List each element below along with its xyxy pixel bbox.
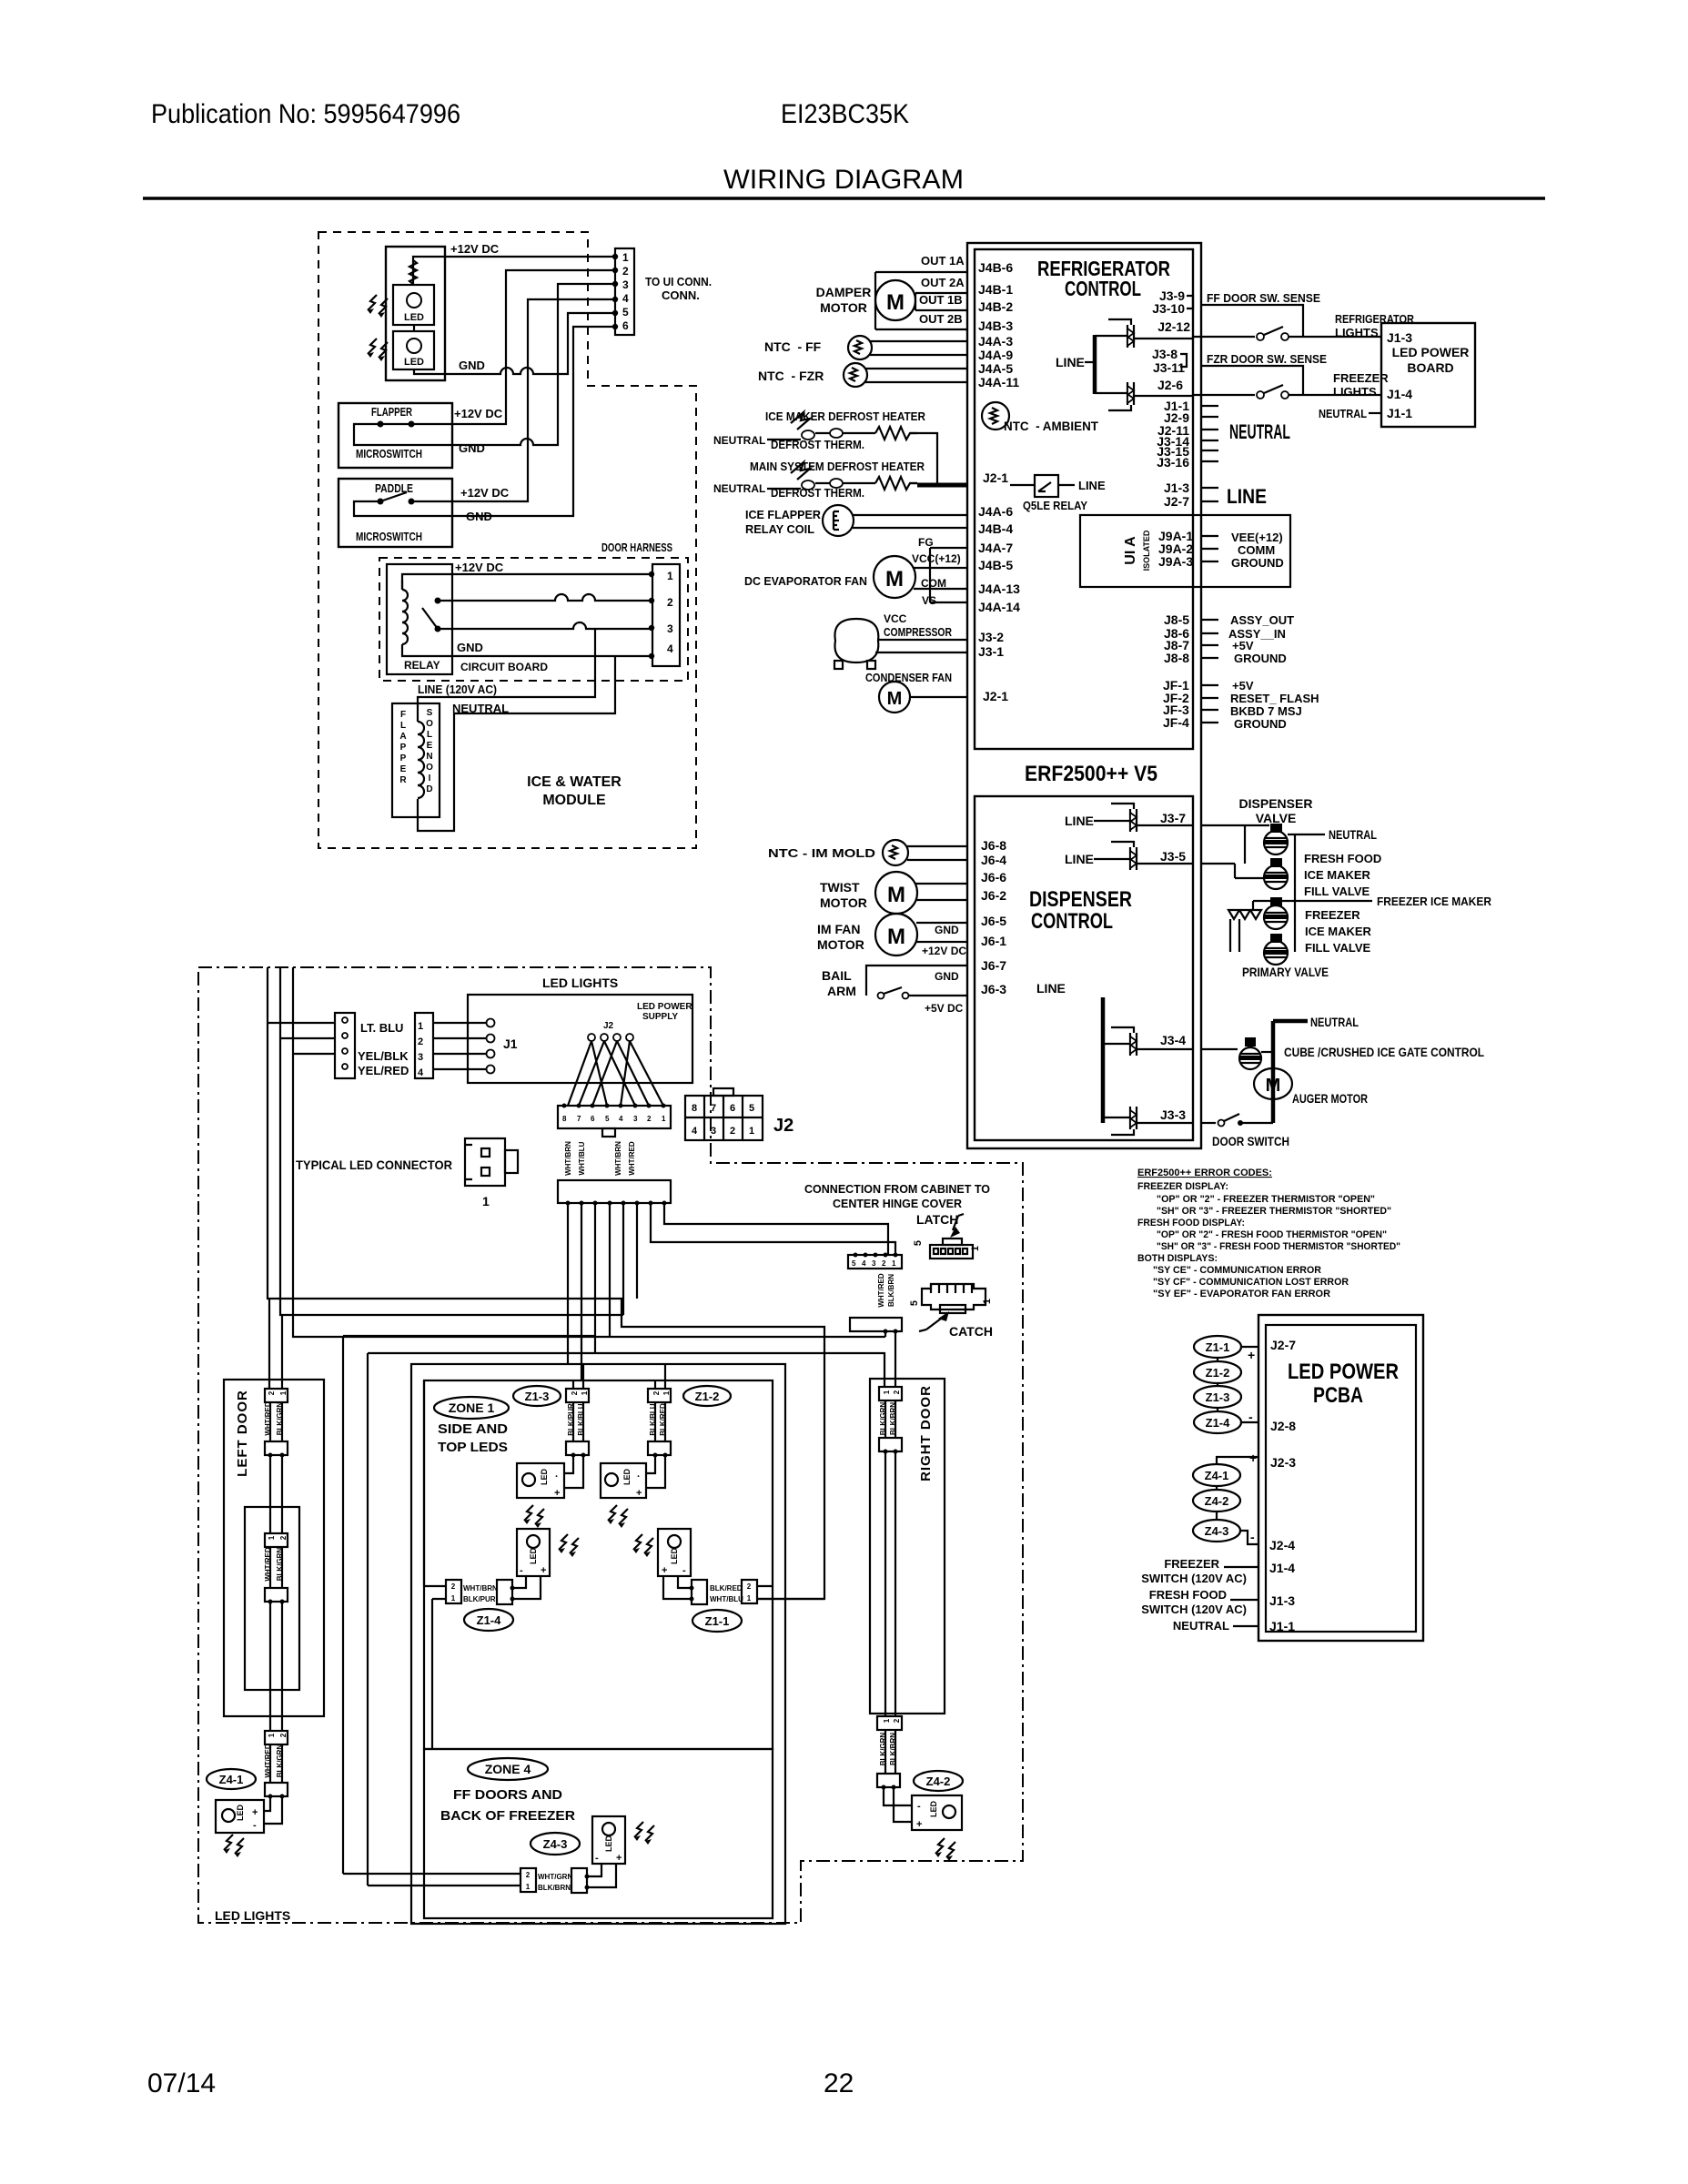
svg-text:GROUND: GROUND (1234, 717, 1287, 731)
J8 stubs (1201, 620, 1218, 658)
svg-text:5: 5 (852, 1259, 856, 1268)
svg-text:VEE(+12): VEE(+12) (1231, 531, 1283, 544)
svg-text:ERF2500++ ERROR CODES:: ERF2500++ ERROR CODES: (1137, 1168, 1272, 1178)
LED POWER PCBA outer box (1258, 1315, 1423, 1641)
NTC FZR thermistor (844, 363, 967, 387)
svg-text:J3-4: J3-4 (1160, 1033, 1186, 1047)
Z4-1 oval (1193, 1464, 1240, 1486)
svg-text:NTC - FZR: NTC - FZR (758, 369, 824, 383)
svg-text:LED: LED (236, 1804, 245, 1821)
svg-text:NEUTRAL: NEUTRAL (1310, 1015, 1359, 1029)
svg-text:FRESH FOOD: FRESH FOOD (1149, 1588, 1227, 1602)
svg-text:BOARD: BOARD (1407, 360, 1453, 375)
svg-text:DISPENSER: DISPENSER (1239, 796, 1313, 811)
svg-text:MOTOR: MOTOR (820, 895, 867, 910)
paddle gnd wire up to pin 6 (354, 327, 615, 516)
svg-text:WHT/GRN: WHT/GRN (538, 1873, 572, 1881)
dispenser control inner box (975, 796, 1193, 1140)
svg-text:J3-8: J3-8 (1152, 347, 1178, 361)
svg-text:LINE (120V AC): LINE (120V AC) (418, 682, 497, 696)
svg-text:FILL VALVE: FILL VALVE (1305, 941, 1371, 955)
svg-text:MICROSWITCH: MICROSWITCH (356, 530, 422, 543)
svg-text:1: 1 (268, 1733, 276, 1737)
svg-text:4: 4 (622, 292, 629, 305)
svg-text:1: 1 (482, 1194, 490, 1208)
Z1 chain wires (1218, 1347, 1258, 1422)
svg-text:GROUND: GROUND (1234, 652, 1287, 665)
svg-text:NEUTRAL: NEUTRAL (1329, 827, 1377, 842)
svg-text:ICE MAKER DEFROST HEATER: ICE MAKER DEFROST HEATER (765, 409, 926, 423)
svg-text:7: 7 (711, 1103, 716, 1114)
svg-text:NTC - IM MOLD: NTC - IM MOLD (768, 846, 875, 860)
svg-text:+: + (1249, 1451, 1257, 1465)
svg-text:+: + (554, 1488, 560, 1499)
Z1-4 oval (1194, 1411, 1241, 1433)
svg-text:1: 1 (279, 1390, 288, 1395)
svg-text:J1-4: J1-4 (1269, 1561, 1295, 1575)
relay +12 wire to pin 1 (402, 574, 652, 590)
LED power supply box (468, 995, 692, 1083)
svg-text:-: - (682, 1565, 686, 1576)
svg-text:GND: GND (457, 641, 483, 654)
svg-text:VCC(+12): VCC(+12) (912, 552, 961, 565)
LED lights dash-dot border (198, 967, 1023, 1923)
svg-text:Z4-3: Z4-3 (543, 1837, 568, 1851)
svg-text:J8-5: J8-5 (1164, 612, 1189, 627)
svg-text:CUBE /CRUSHED ICE GATE CONTROL: CUBE /CRUSHED ICE GATE CONTROL (1284, 1045, 1484, 1059)
svg-text:LINE: LINE (1036, 981, 1066, 996)
svg-text:2: 2 (652, 1390, 661, 1395)
svg-text:.: . (637, 1469, 640, 1480)
IM fan motor (875, 914, 968, 955)
water inlet triangles (1228, 910, 1261, 952)
svg-text:LINE: LINE (1227, 485, 1267, 508)
FZR door sense wire (1193, 366, 1303, 395)
right door wires (885, 1400, 895, 1716)
svg-text:SIDE AND: SIDE AND (438, 1421, 508, 1437)
svg-text:4: 4 (418, 1067, 424, 1078)
svg-text:BLK/RED: BLK/RED (710, 1584, 743, 1592)
flapper solenoid box (392, 703, 440, 817)
svg-text:7: 7 (577, 1115, 581, 1123)
svg-text:1: 1 (892, 1259, 896, 1268)
J3-4 wire to ice gate valve (1201, 1048, 1238, 1050)
svg-text:LED: LED (604, 1835, 613, 1852)
svg-text:J1-3: J1-3 (1387, 330, 1412, 345)
svg-text:FF DOORS AND: FF DOORS AND (453, 1787, 562, 1803)
svg-text:FREEZER ICE MAKER: FREEZER ICE MAKER (1377, 895, 1492, 908)
svg-text:J1: J1 (503, 1036, 518, 1051)
harness bus wires (268, 967, 885, 1886)
svg-text:1: 1 (982, 1299, 993, 1304)
paddle +12 wire up to pin 4 (411, 299, 615, 501)
svg-text:2: 2 (893, 1718, 901, 1723)
svg-text:J6-7: J6-7 (981, 958, 1006, 973)
Z4-3 oval (1193, 1520, 1240, 1542)
svg-text:WHT/RED: WHT/RED (628, 1141, 636, 1176)
svg-text:JF-4: JF-4 (1163, 715, 1189, 730)
svg-text:J1-3: J1-3 (1164, 480, 1189, 495)
Z4-3 oval (531, 1833, 580, 1855)
svg-text:+: + (616, 1853, 622, 1864)
svg-text:DOOR HARNESS: DOOR HARNESS (601, 541, 672, 554)
neutral pin stubs (1201, 406, 1218, 461)
svg-text:LATCH: LATCH (916, 1212, 958, 1227)
svg-text:VCC: VCC (884, 612, 907, 625)
svg-text:LEFT DOOR: LEFT DOOR (235, 1390, 250, 1477)
Z1-2 connector (648, 1364, 671, 1458)
svg-text:WHT/RED: WHT/RED (877, 1273, 885, 1308)
relay coil symbol (823, 505, 967, 536)
J1 connector box (415, 1013, 433, 1078)
svg-text:2: 2 (451, 1582, 456, 1591)
svg-text:J3-3: J3-3 (1160, 1107, 1186, 1122)
svg-text:LED LIGHTS: LED LIGHTS (215, 1908, 290, 1923)
bail arm wire + switch (866, 966, 968, 999)
svg-text:4: 4 (667, 642, 673, 655)
svg-text:MOTOR: MOTOR (820, 300, 867, 315)
JF pin labels (1163, 678, 1189, 730)
svg-text:Z4-3: Z4-3 (1205, 1524, 1229, 1538)
svg-text:3: 3 (667, 622, 673, 635)
svg-text:J6-5: J6-5 (981, 914, 1006, 928)
svg-text:UI A: UI A (1123, 536, 1138, 565)
J1 pin numbers (418, 1021, 424, 1078)
lower wire strip (558, 1180, 671, 1206)
fresh food fill valve (1264, 858, 1289, 889)
J9A stubs (1201, 536, 1218, 561)
svg-text:DEFROST THERM.: DEFROST THERM. (771, 438, 864, 451)
svg-text:LED POWER: LED POWER (637, 1002, 692, 1012)
svg-text:J4A-6: J4A-6 (978, 504, 1013, 519)
svg-text:1: 1 (883, 1718, 891, 1723)
right door wire labels (879, 1402, 897, 1436)
svg-text:NEUTRAL: NEUTRAL (1229, 420, 1290, 443)
fresh food switch wire (1230, 1599, 1258, 1601)
svg-text:BAIL: BAIL (822, 968, 852, 983)
zone 1 box (424, 1380, 773, 1749)
svg-text:J4B-4: J4B-4 (978, 521, 1013, 536)
svg-text:J3-10: J3-10 (1152, 301, 1185, 316)
Z4-2 oval (914, 1771, 963, 1791)
J3-4 triac (1103, 1027, 1193, 1056)
svg-text:Z1-3: Z1-3 (1206, 1390, 1230, 1404)
svg-text:J2-7: J2-7 (1164, 494, 1189, 509)
svg-text:FLAPPER: FLAPPER (371, 405, 412, 419)
svg-text:1: 1 (667, 570, 673, 582)
svg-text:J4A-13: J4A-13 (978, 581, 1020, 596)
flapper microswitch box (339, 403, 452, 468)
svg-text:DISPENSER: DISPENSER (1029, 887, 1132, 912)
hinge wire labels WHT/RED BLK/BRN (877, 1273, 895, 1308)
svg-text:BLK/BRN: BLK/BRN (887, 1274, 895, 1307)
auger motor (1254, 1068, 1292, 1099)
svg-text:Z1-1: Z1-1 (705, 1614, 730, 1628)
svg-text:M: M (887, 883, 905, 907)
svg-text:2: 2 (893, 1390, 901, 1394)
triac J2-12 (1095, 319, 1193, 348)
svg-text:Z1-2: Z1-2 (695, 1390, 720, 1403)
LED 2 (393, 331, 434, 369)
svg-text:1: 1 (662, 1390, 671, 1395)
svg-text:M: M (885, 567, 904, 591)
svg-text:VALVE: VALVE (1256, 811, 1297, 825)
svg-text:PCBA: PCBA (1313, 1383, 1363, 1408)
relay board box (387, 564, 452, 674)
left door top connector (265, 1389, 288, 1402)
right pin labels of refrigerator control (1152, 288, 1190, 509)
svg-text:TWIST: TWIST (820, 880, 860, 895)
Z1-1 oval (692, 1610, 742, 1632)
svg-text:5: 5 (605, 1115, 610, 1123)
left pin labels of refrigerator control (978, 260, 1020, 703)
J2 supply terminals (588, 1034, 633, 1041)
svg-text:2: 2 (526, 1871, 531, 1879)
svg-text:LED: LED (622, 1468, 632, 1485)
svg-text:1: 1 (970, 1246, 981, 1251)
Z1-1 LED module (vertical) (633, 1529, 691, 1576)
svg-text:ERF2500++ V5: ERF2500++ V5 (1025, 762, 1157, 786)
LED1-LED2 link wire (413, 325, 415, 331)
svg-text:RIGHT DOOR: RIGHT DOOR (918, 1385, 934, 1481)
supply terminal circles (487, 1019, 495, 1074)
svg-text:J2-1: J2-1 (983, 689, 1008, 703)
svg-text:MODULE: MODULE (542, 793, 606, 808)
relay gnd wire to pin 4 (402, 650, 652, 656)
svg-text:LIGHTS: LIGHTS (1333, 385, 1377, 399)
svg-text:J4A-14: J4A-14 (978, 600, 1020, 614)
svg-text:ISOLATED: ISOLATED (1142, 530, 1151, 571)
svg-text:J2: J2 (603, 1021, 614, 1031)
svg-text:LED: LED (670, 1547, 679, 1564)
svg-text:LED LIGHTS: LED LIGHTS (542, 976, 618, 990)
Z1-3 connector (566, 1364, 589, 1458)
svg-text:6: 6 (622, 319, 629, 332)
svg-text:6: 6 (730, 1103, 735, 1114)
svg-text:+12V DC: +12V DC (460, 486, 510, 500)
svg-text:M: M (1266, 1076, 1281, 1096)
J3-5 triac (1094, 842, 1193, 870)
svg-text:GROUND: GROUND (1231, 556, 1284, 570)
svg-text:OUT 1A: OUT 1A (921, 254, 965, 268)
condenser fan motor (879, 682, 967, 713)
svg-text:LINE: LINE (1056, 355, 1085, 369)
svg-text:Q5LE RELAY: Q5LE RELAY (1023, 499, 1087, 512)
svg-text:TO UI CONN.: TO UI CONN. (645, 275, 712, 288)
svg-text:MAIN SYSTEM DEFROST HEATER: MAIN SYSTEM DEFROST HEATER (750, 460, 925, 473)
svg-text:1: 1 (883, 1390, 891, 1394)
svg-text:1: 1 (662, 1115, 666, 1123)
right door bottom connector (877, 1716, 902, 1790)
svg-text:2: 2 (571, 1390, 579, 1395)
svg-text:+12V DC: +12V DC (450, 242, 500, 256)
J2 housing connector 4x2 (685, 1088, 763, 1140)
svg-text:J4B-1: J4B-1 (978, 282, 1013, 297)
relay contact wire to pin 2 with hops (438, 594, 652, 601)
dispenser left pin labels (981, 838, 1006, 996)
Z1-4 LED module (vertical) (517, 1529, 579, 1576)
relay coil (402, 580, 408, 650)
svg-text:5: 5 (913, 1240, 924, 1246)
svg-text:M: M (887, 925, 905, 949)
svg-text:BLK/BRN: BLK/BRN (538, 1884, 571, 1892)
svg-text:J4A-11: J4A-11 (978, 375, 1019, 389)
svg-text:ZONE 1: ZONE 1 (449, 1400, 495, 1415)
strip wire labels (264, 1547, 284, 1582)
svg-text:3: 3 (622, 278, 629, 291)
svg-text:1: 1 (749, 1126, 754, 1137)
svg-text:8: 8 (562, 1115, 567, 1123)
svg-text:3: 3 (872, 1259, 876, 1268)
catch connector (909, 1284, 993, 1313)
refrigerator control inner box (975, 249, 1193, 749)
J1 wires to supply terminals (433, 1023, 486, 1069)
svg-text:J3-2: J3-2 (978, 630, 1004, 644)
svg-text:CONN.: CONN. (662, 288, 700, 302)
svg-text:NTC - AMBIENT: NTC - AMBIENT (1004, 419, 1098, 433)
svg-text:MOTOR: MOTOR (817, 937, 864, 952)
svg-text:-: - (1250, 1530, 1255, 1544)
FZR door switch (1257, 385, 1381, 399)
light rays at LED1 (368, 295, 388, 318)
svg-text:TOP LEDS: TOP LEDS (438, 1440, 508, 1455)
svg-text:VS: VS (922, 594, 936, 607)
svg-text:07/14: 07/14 (147, 2068, 216, 2098)
svg-text:IM FAN: IM FAN (817, 922, 860, 936)
svg-text:WIRING DIAGRAM: WIRING DIAGRAM (723, 165, 964, 195)
strip connector 1 (265, 1533, 288, 1547)
svg-text:MICROSWITCH: MICROSWITCH (356, 447, 422, 460)
svg-text:-: - (595, 1853, 599, 1864)
svg-text:2: 2 (882, 1259, 886, 1268)
svg-text:NEUTRAL: NEUTRAL (713, 434, 765, 447)
J3-8/J3-11 bracket (1180, 354, 1187, 367)
svg-text:1: 1 (268, 1535, 276, 1540)
wire valve to NEUTRAL (1288, 834, 1325, 835)
svg-text:"SH" OR "3" - FREEZER THERMIST: "SH" OR "3" - FREEZER THERMISTOR "SHORTE… (1157, 1206, 1391, 1217)
J3-9/J3-10 bracket (1187, 296, 1193, 308)
svg-text:J1-4: J1-4 (1387, 387, 1412, 401)
door harness 4-pin connector (652, 564, 680, 666)
svg-text:FRESH FOOD DISPLAY:: FRESH FOOD DISPLAY: (1137, 1218, 1245, 1228)
svg-text:GND: GND (459, 441, 485, 455)
svg-text:CONTROL: CONTROL (1031, 909, 1113, 934)
svg-text:CONDENSER FAN: CONDENSER FAN (865, 671, 952, 684)
svg-text:LED: LED (529, 1547, 538, 1564)
zone outer box (411, 1364, 785, 1924)
svg-text:LED: LED (404, 312, 424, 323)
wire color labels under strip (564, 1141, 636, 1176)
svg-text:CIRCUIT BOARD: CIRCUIT BOARD (460, 661, 548, 673)
svg-text:J6-1: J6-1 (981, 934, 1006, 948)
svg-text:J1-1: J1-1 (1269, 1619, 1295, 1633)
header rule (143, 197, 1545, 200)
svg-text:"OP" OR "2" - FRESH FOOD THERM: "OP" OR "2" - FRESH FOOD THERMISTOR "OPE… (1157, 1229, 1387, 1240)
freezer switch wire (1224, 1566, 1258, 1568)
svg-text:DEFROST THERM.: DEFROST THERM. (771, 486, 864, 500)
svg-text:+5V: +5V (1232, 639, 1254, 652)
svg-text:CATCH: CATCH (949, 1324, 993, 1339)
Z4-1 oval (207, 1769, 256, 1789)
svg-text:.: . (555, 1469, 558, 1480)
Z1-4 oval (464, 1609, 513, 1631)
svg-text:J2-7: J2-7 (1270, 1338, 1296, 1352)
J3-7 triac (1094, 804, 1193, 832)
svg-text:+12V DC: +12V DC (454, 407, 503, 420)
svg-text:DOOR SWITCH: DOOR SWITCH (1212, 1134, 1289, 1148)
left door wire labels (264, 1401, 284, 1436)
svg-text:FZR DOOR SW. SENSE: FZR DOOR SW. SENSE (1207, 352, 1327, 366)
twist motor (875, 872, 968, 914)
relay contact wire to pin 3 with hop (438, 622, 652, 629)
IM MOLD thermistor (883, 840, 968, 865)
svg-text:J4B-3: J4B-3 (978, 318, 1013, 333)
svg-text:1: 1 (747, 1594, 752, 1603)
svg-text:FF DOOR SW. SENSE: FF DOOR SW. SENSE (1207, 291, 1320, 305)
svg-text:RELAY COIL: RELAY COIL (745, 522, 814, 536)
svg-text:2: 2 (418, 1036, 423, 1047)
wire from resistor to pin 1 (413, 257, 615, 285)
svg-text:+: + (916, 1819, 922, 1830)
svg-text:LED POWER: LED POWER (1392, 345, 1470, 359)
flapper gnd wire with hop to pin 3 (354, 284, 615, 445)
svg-text:1: 1 (581, 1390, 589, 1395)
damper motor (875, 272, 915, 329)
svg-text:J6-4: J6-4 (981, 853, 1006, 867)
LEFT DOOR box (224, 1380, 324, 1716)
LED gnd wire with crossover hops to pin 5 (414, 313, 615, 374)
J8 pin labels (1164, 612, 1189, 665)
svg-text:OUT 1B: OUT 1B (919, 293, 963, 307)
svg-text:+5V DC: +5V DC (925, 1002, 964, 1015)
svg-text:NEUTRAL: NEUTRAL (1319, 407, 1367, 420)
svg-text:3: 3 (711, 1126, 716, 1137)
svg-text:"SH" OR "3" - FRESH FOOD THERM: "SH" OR "3" - FRESH FOOD THERMISTOR "SHO… (1157, 1241, 1400, 1252)
svg-text:BLK/PUR: BLK/PUR (463, 1595, 496, 1603)
svg-text:GND: GND (459, 359, 485, 372)
svg-text:J6-3: J6-3 (981, 982, 1006, 996)
relay contacts (422, 598, 441, 632)
svg-text:6: 6 (591, 1115, 595, 1123)
svg-text:ICE & WATER: ICE & WATER (527, 774, 622, 790)
wires from hinge lower connector down to right door (885, 1331, 895, 1387)
UI connector pin dots (612, 254, 618, 329)
svg-text:J2-3: J2-3 (1270, 1455, 1296, 1470)
svg-text:RESET_ FLASH: RESET_ FLASH (1230, 692, 1319, 705)
svg-text:22: 22 (824, 2068, 854, 2098)
4-pin connector at left (335, 1013, 355, 1078)
svg-text:Publication No: 5995647996: Publication No: 5995647996 (151, 99, 460, 129)
left door wires (270, 1402, 282, 1533)
primary valve (1264, 934, 1289, 965)
strip connector 2 (265, 1588, 288, 1604)
Z1-3 oval (1194, 1386, 1241, 1408)
line wire from harness down to solenoid (418, 629, 595, 722)
svg-text:CONTROL: CONTROL (1065, 277, 1141, 300)
left door mid connector (265, 1441, 288, 1458)
svg-text:+12V DC: +12V DC (922, 945, 966, 957)
svg-text:J2: J2 (773, 1116, 793, 1136)
svg-text:J1-3: J1-3 (1269, 1593, 1295, 1608)
NEUTRAL thick bus (auger) (1273, 1021, 1308, 1123)
svg-text:2: 2 (279, 1535, 288, 1540)
resistor (vertical squiggle) above LED1 (409, 260, 417, 284)
paddle microswitch box (339, 479, 452, 547)
J3-7 wire to dispenser valve (1201, 824, 1269, 826)
svg-text:3: 3 (633, 1115, 638, 1123)
Z1-1 connector (663, 1576, 824, 1604)
svg-text:2: 2 (667, 596, 673, 609)
